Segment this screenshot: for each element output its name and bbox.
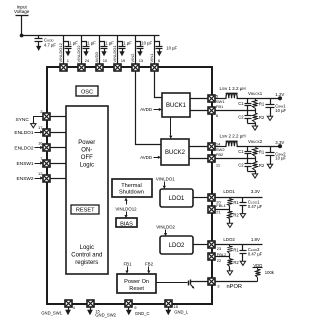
svg-text:R1: R1	[259, 150, 265, 155]
pin 21	[208, 206, 215, 213]
svg-text:10 µF: 10 µF	[166, 46, 177, 51]
wire input voltage drop	[21, 16, 23, 36]
wire nPOR net	[216, 281, 258, 283]
capacitor CBW1	[266, 99, 275, 114]
svg-text:GND_L: GND_L	[174, 310, 189, 315]
net label AVDD to BUCK2	[140, 155, 161, 160]
block Power ON-OFF Logic / Logic Control and registers	[66, 106, 108, 274]
svg-text:1 µF: 1 µF	[87, 41, 96, 46]
block LDO1	[160, 189, 193, 207]
net label VINLDO2 arrow to LDO2	[156, 224, 175, 236]
svg-text:VBUCK2: VBUCK2	[248, 139, 263, 144]
svg-text:GND_SW1: GND_SW1	[41, 310, 62, 315]
wire VIN1 to BUCK1	[155, 71, 163, 98]
capacitor 1 µF at VINLDO2	[83, 44, 90, 51]
svg-text:LDO1: LDO1	[223, 189, 235, 194]
svg-text:R2: R2	[233, 260, 239, 265]
svg-text:ON-: ON-	[81, 148, 92, 154]
label Power ON-OFF Logic	[78, 140, 95, 169]
capacitor C1 buck1	[245, 99, 252, 111]
ground CBW1	[267, 114, 272, 121]
svg-text:Voltage: Voltage	[14, 9, 30, 14]
capacitor C2 buck1	[245, 111, 252, 124]
svg-text:OSC: OSC	[81, 89, 93, 95]
svg-text:LSW 2 2.2 µH: LSW 2 2.2 µH	[220, 134, 246, 139]
wire BUCK1 to BUCK2 arrow	[169, 118, 172, 139]
pin 14	[208, 143, 215, 150]
block BIAS	[116, 218, 137, 227]
wire LDO2 to pin 23	[194, 244, 208, 246]
svg-text:GND_SW2: GND_SW2	[95, 312, 116, 317]
wire LDO1 to pin 20	[194, 197, 208, 199]
wire VIN2 to BUCK2	[136, 71, 162, 145]
resistor R2 ldo1	[228, 210, 233, 221]
svg-text:BIAS: BIAS	[120, 221, 133, 227]
svg-text:LSW 1 2.2 µH: LSW 1 2.2 µH	[220, 86, 246, 91]
svg-text:10: 10	[103, 58, 108, 63]
svg-text:VINLDO2: VINLDO2	[76, 45, 81, 63]
capacitor 1 µF at AVDD	[101, 44, 108, 51]
svg-text:100k: 100k	[265, 270, 275, 275]
svg-text:SYNC: SYNC	[15, 117, 29, 123]
svg-text:ENLDO2: ENLDO2	[14, 146, 34, 152]
value label CBW1 10 uF	[275, 104, 286, 113]
wire riser AVDD	[99, 36, 101, 64]
ground pin 15	[87, 308, 93, 316]
block LDO2	[160, 236, 193, 254]
wire pin 17 to logic block	[51, 132, 67, 134]
svg-text:0.47 µF: 0.47 µF	[248, 204, 263, 209]
svg-text:nPOR: nPOR	[227, 284, 243, 290]
svg-text:FB1: FB1	[216, 104, 224, 109]
label Logic Control and registers	[71, 245, 102, 266]
svg-text:GND_C: GND_C	[135, 311, 150, 316]
pin 12 ENSW2	[43, 175, 50, 182]
wire BUCK2 to FB2	[190, 158, 208, 160]
svg-text:AVDD: AVDD	[140, 155, 152, 160]
ground CLDO2	[240, 259, 245, 266]
svg-text:FB2: FB2	[145, 262, 154, 267]
wire cap stub AVDD	[100, 42, 105, 44]
svg-text:12: 12	[38, 171, 43, 176]
svg-text:R2: R2	[259, 163, 265, 168]
pin 2 SYNC	[43, 113, 50, 120]
svg-text:3.3V: 3.3V	[251, 189, 260, 194]
pin label FBL1 21	[216, 203, 226, 214]
label ENSW2 with arrow	[17, 176, 44, 182]
wire cap stub VIN1	[155, 42, 160, 44]
svg-text:1.2V: 1.2V	[275, 92, 284, 97]
svg-text:LDO2: LDO2	[169, 243, 185, 249]
capacitor C1 buck2	[245, 147, 252, 159]
pin 23	[208, 241, 215, 248]
node junction input rail	[20, 34, 24, 38]
pin 5	[208, 95, 215, 102]
pin label FBL2 22	[217, 252, 227, 263]
wire FB2 divider	[216, 158, 256, 160]
resistor 100k pullup	[256, 268, 261, 282]
power symbol Input Voltage bar	[16, 15, 29, 17]
block BUCK2	[161, 139, 189, 165]
wire riser VIN2	[135, 36, 137, 64]
svg-text:R2: R2	[233, 213, 239, 218]
wire FBL2 to divider	[216, 256, 230, 258]
wire FB1 divider	[216, 110, 256, 112]
svg-text:FB1: FB1	[123, 262, 132, 267]
ground cap VINLDO12	[65, 51, 70, 57]
ground R2 ldo2	[227, 269, 232, 276]
value label CUDD 4.7 uF	[44, 38, 56, 48]
inductor LSW1	[226, 93, 238, 98]
svg-text:VIN2: VIN2	[130, 53, 135, 63]
svg-text:1 µF: 1 µF	[105, 41, 114, 46]
svg-text:24: 24	[85, 58, 90, 63]
svg-text:Logic: Logic	[80, 163, 94, 169]
pin 20	[208, 194, 215, 201]
wire pin 7 to logic block	[51, 163, 67, 165]
svg-text:C2: C2	[238, 163, 244, 168]
pin 10 AVDD	[96, 64, 103, 71]
resistor R1 buck1	[253, 99, 258, 111]
svg-text:Power On: Power On	[124, 279, 149, 285]
transistor Q1 open-drain	[189, 280, 208, 289]
ground pin 4	[65, 308, 71, 316]
wire riser VINLDO12	[63, 36, 65, 64]
pin 13 VIN2	[132, 64, 139, 71]
svg-text:Reset: Reset	[129, 286, 144, 292]
svg-text:BUCK1: BUCK1	[166, 103, 187, 109]
wire input rail	[22, 35, 160, 37]
svg-text:22: 22	[217, 258, 222, 263]
svg-text:FB2: FB2	[216, 152, 224, 157]
ground buck2 divider	[252, 172, 257, 179]
resistor R1 buck2	[253, 147, 258, 159]
wire BUCK1 to SW1	[191, 98, 208, 100]
svg-text:VINLDO1: VINLDO1	[156, 176, 175, 181]
pin 9 GND	[125, 300, 132, 307]
pin 1 VINLDO12	[60, 64, 67, 71]
svg-text:AVDD: AVDD	[140, 107, 152, 112]
svg-text:FBL1: FBL1	[216, 203, 226, 208]
wire divider bottom join buck1	[248, 123, 256, 125]
svg-text:16: 16	[38, 141, 43, 146]
svg-text:LDO2: LDO2	[223, 237, 235, 242]
svg-text:Control and: Control and	[71, 253, 102, 259]
wire BUCK1 to FB1	[191, 110, 208, 112]
capacitor 10 µF at VIN1	[156, 44, 163, 51]
wire riser VINLDO1	[117, 36, 119, 64]
resistor R1 ldo2	[228, 245, 233, 257]
pin 22	[208, 253, 215, 260]
ground pin 18	[165, 308, 171, 316]
wire cap stub VINLDO1	[118, 42, 123, 44]
value label CBW2 10 uF	[275, 151, 286, 160]
pin 3	[208, 278, 215, 285]
svg-text:OFF: OFF	[81, 155, 93, 161]
wire cap stub VINLDO2	[82, 42, 87, 44]
ground cap VIN2	[137, 51, 142, 57]
wire BUCK2 to SW2	[190, 146, 208, 148]
wire cap stub VINLDO12	[64, 42, 69, 44]
pin 19 VINLDO1	[114, 64, 121, 71]
label ENSW1 with arrow	[17, 161, 44, 167]
net label VINLDO1 arrow to LDO1	[156, 176, 175, 189]
pin 16 ENLDO2	[43, 144, 50, 151]
wire pin 12 to logic block	[51, 178, 67, 180]
ground cap VINLDO1	[119, 51, 124, 57]
IC body outline	[47, 67, 212, 304]
value label CLDO2 0.47 uF	[248, 247, 263, 256]
svg-text:4.7 µF: 4.7 µF	[44, 43, 56, 48]
wire VBUCK2 node	[237, 146, 281, 148]
resistor R2 ldo2	[228, 257, 233, 269]
wire divider bottom join buck2	[248, 171, 256, 173]
svg-text:10 µF: 10 µF	[275, 156, 286, 161]
pin 6 VIN1	[151, 64, 158, 71]
svg-text:R1: R1	[233, 248, 239, 253]
wire SW1 to inductor	[216, 98, 227, 100]
svg-text:BUCK2: BUCK2	[165, 150, 186, 156]
capacitor 1 µF at VINLDO12	[65, 44, 72, 51]
pin 4 GND	[65, 300, 72, 307]
capacitor CLDO2	[240, 245, 247, 259]
value label CLDO1 0.47 uF	[248, 200, 263, 209]
svg-text:VINLDO12: VINLDO12	[115, 206, 137, 211]
svg-text:0.47 µF: 0.47 µF	[248, 252, 263, 257]
ground CLDO1	[240, 212, 245, 218]
block BUCK1	[162, 93, 190, 117]
svg-text:C2: C2	[238, 115, 244, 120]
pin label FB1 8	[216, 104, 224, 118]
svg-text:VINLDO2: VINLDO2	[156, 224, 175, 229]
node 1.2V terminal	[275, 92, 284, 100]
net label FB1 arrow to Power On Reset	[123, 262, 132, 274]
svg-text:VBUCK1: VBUCK1	[248, 91, 263, 96]
svg-text:ENSW2: ENSW2	[17, 176, 34, 182]
pin label FB2 11	[216, 152, 224, 168]
svg-text:17: 17	[38, 125, 43, 130]
wire FBL1 to divider	[216, 209, 230, 211]
pin 18 GND	[165, 300, 172, 307]
ground SYNC	[31, 122, 36, 128]
pin label 14 SW2	[216, 141, 225, 152]
svg-text:registers: registers	[75, 260, 98, 266]
pin 8	[208, 107, 215, 114]
wire pin 2 to logic block	[51, 116, 67, 118]
ground R2 ldo1	[227, 221, 232, 228]
node 3.3V terminal buck2	[275, 140, 284, 148]
svg-text:1.8V: 1.8V	[251, 237, 260, 242]
wire SW2 to inductor	[216, 146, 227, 148]
node Input Voltage label	[14, 4, 30, 14]
ground cap VIN1	[157, 51, 162, 57]
pin 24 VINLDO2	[78, 64, 85, 71]
svg-text:LDO1: LDO1	[169, 196, 185, 202]
svg-text:14: 14	[216, 141, 221, 146]
svg-text:ENLDO1: ENLDO1	[14, 130, 34, 136]
capacitor CLDO1	[240, 198, 247, 212]
svg-text:VINLDO1: VINLDO1	[112, 45, 117, 63]
ground cap VINLDO2	[83, 51, 88, 57]
svg-text:R1: R1	[233, 200, 239, 205]
svg-text:1 µF: 1 µF	[123, 41, 132, 46]
wire VBUCK1 node	[237, 98, 281, 100]
resistor R2 buck2	[253, 159, 258, 172]
svg-text:3.3V: 3.3V	[275, 140, 284, 145]
svg-text:Shutdown: Shutdown	[119, 190, 144, 196]
svg-text:R2: R2	[259, 115, 265, 120]
capacitor C2 buck2	[245, 159, 252, 172]
ground pin 9	[126, 308, 132, 316]
net label FB2 arrow to Power On Reset	[145, 262, 154, 274]
pin 15 GND	[87, 300, 94, 307]
block RESET	[71, 205, 99, 214]
svg-text:C1: C1	[238, 101, 244, 106]
svg-text:VIN1: VIN1	[149, 53, 154, 63]
wire LDO1 output node	[216, 197, 263, 199]
ground CBW2	[267, 162, 272, 169]
inductor LSW2	[226, 141, 238, 146]
svg-text:Power: Power	[78, 140, 95, 146]
net label AVDD to BUCK1	[140, 107, 162, 112]
wire riser VINLDO2	[81, 36, 83, 64]
pin 7 ENSW1	[43, 160, 50, 167]
wire riser VIN1	[154, 36, 156, 64]
svg-text:1 µF: 1 µF	[69, 41, 78, 46]
svg-text:ENSW1: ENSW1	[17, 161, 34, 167]
svg-text:Logic: Logic	[80, 245, 94, 251]
wire LDO2 output node	[216, 244, 263, 246]
ground cap AVDD	[101, 51, 106, 57]
svg-text:10 µF: 10 µF	[275, 108, 286, 113]
net SYNC tie-down wire	[34, 117, 43, 122]
svg-text:18: 18	[173, 304, 178, 309]
net label VINLDO12 arrows to Thermal Shutdown and BIAS	[115, 198, 137, 219]
ground buck1 divider	[252, 124, 257, 131]
label ENLDO1 with arrow	[14, 130, 43, 136]
svg-text:VINLDO12: VINLDO12	[58, 42, 63, 62]
svg-text:C1: C1	[238, 149, 244, 154]
capacitor CUDD	[35, 36, 43, 46]
svg-text:13: 13	[139, 58, 144, 63]
wire Power On Reset to transistor gate	[157, 282, 188, 284]
resistor R2 buck1	[253, 111, 258, 124]
pin 17 ENLDO1	[43, 129, 50, 136]
svg-text:19: 19	[121, 58, 126, 63]
resistor R1 ldo1	[228, 198, 233, 210]
power symbol VDD	[253, 263, 263, 268]
svg-text:23: 23	[217, 246, 222, 251]
block OSC	[76, 86, 98, 96]
capacitor 1 µF at VINLDO1	[119, 44, 126, 51]
block Power On Reset	[117, 274, 156, 293]
wire cap stub VIN2	[136, 42, 141, 44]
svg-text:RESET: RESET	[76, 208, 95, 214]
svg-text:10 µF: 10 µF	[141, 41, 152, 46]
capacitor CBW2	[266, 147, 275, 162]
ground CUDD	[36, 46, 41, 51]
block Thermal Shutdown	[112, 179, 152, 197]
pin label 5 SW1	[216, 93, 225, 104]
svg-text:Thermal: Thermal	[121, 183, 142, 189]
pin 11	[208, 155, 215, 162]
label ENLDO2 with arrow	[14, 146, 43, 152]
svg-text:R1: R1	[259, 102, 265, 107]
wire pin 16 to logic block	[51, 147, 67, 149]
svg-text:AVDD: AVDD	[94, 52, 99, 63]
capacitor 10 µF at VIN2	[137, 44, 144, 51]
